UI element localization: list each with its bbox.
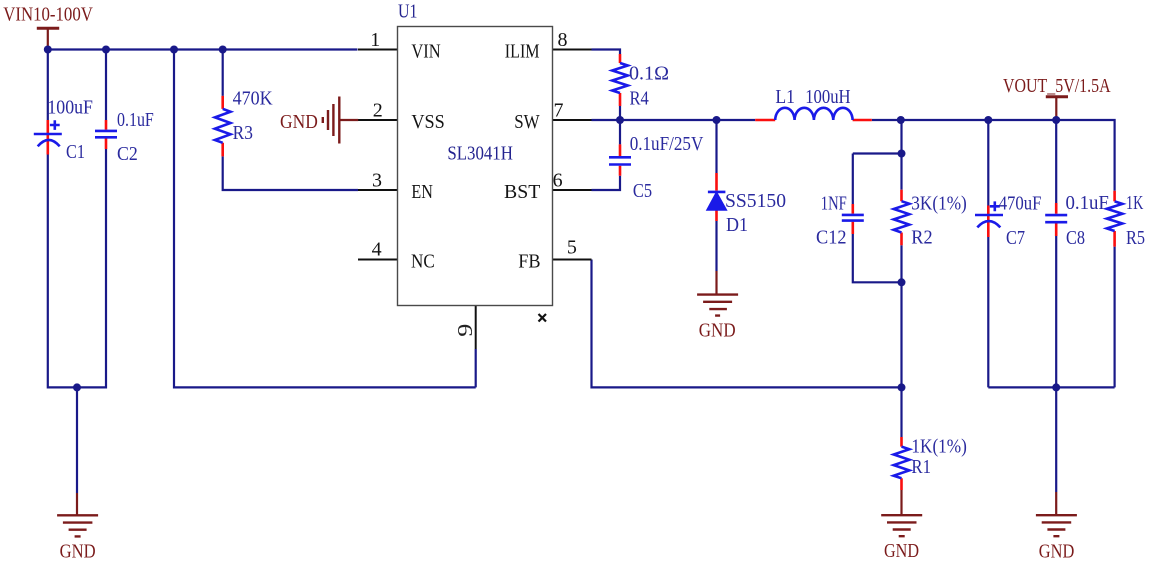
svg-text:0.1uF/25V: 0.1uF/25V <box>630 133 704 155</box>
svg-text:SL3041H: SL3041H <box>447 143 513 165</box>
svg-text:R2: R2 <box>911 227 932 249</box>
svg-text:EN: EN <box>411 181 433 203</box>
svg-text:L1: L1 <box>775 86 795 108</box>
svg-text:2: 2 <box>373 100 383 122</box>
svg-text:GND: GND <box>280 111 318 133</box>
svg-text:9: 9 <box>454 324 477 337</box>
svg-text:VIN10-100V: VIN10-100V <box>3 4 93 26</box>
svg-text:NC: NC <box>411 251 435 273</box>
svg-text:0.1uF: 0.1uF <box>117 109 154 131</box>
svg-text:SS5150: SS5150 <box>725 190 786 212</box>
svg-text:7: 7 <box>554 100 564 122</box>
svg-text:ILIM: ILIM <box>505 41 540 63</box>
svg-text:3K(1%): 3K(1%) <box>911 193 967 215</box>
svg-text:C8: C8 <box>1066 227 1085 249</box>
svg-text:100uH: 100uH <box>805 86 850 108</box>
svg-text:C7: C7 <box>1006 227 1025 249</box>
svg-text:470uF: 470uF <box>999 193 1042 215</box>
svg-text:VSS: VSS <box>411 111 444 133</box>
svg-text:VIN: VIN <box>411 41 440 63</box>
svg-text:1K: 1K <box>1126 192 1144 214</box>
svg-text:GND: GND <box>1039 540 1075 562</box>
svg-text:6: 6 <box>553 170 563 192</box>
svg-text:3: 3 <box>372 170 382 192</box>
svg-text:U1: U1 <box>398 1 417 23</box>
svg-text:8: 8 <box>558 29 568 51</box>
svg-text:BST: BST <box>504 181 540 203</box>
svg-text:0.1Ω: 0.1Ω <box>629 63 669 85</box>
svg-text:GND: GND <box>884 540 919 562</box>
svg-text:R1: R1 <box>911 456 931 478</box>
svg-text:FB: FB <box>518 251 540 273</box>
svg-text:5: 5 <box>567 237 577 259</box>
svg-text:C1: C1 <box>66 141 85 163</box>
svg-text:GND: GND <box>60 540 96 562</box>
svg-text:VOUT_5V/1.5A: VOUT_5V/1.5A <box>1003 75 1111 97</box>
svg-text:C2: C2 <box>117 143 138 165</box>
svg-text:100uF: 100uF <box>47 97 93 119</box>
svg-text:R4: R4 <box>630 87 649 109</box>
svg-text:R3: R3 <box>233 122 253 144</box>
svg-text:C5: C5 <box>633 180 652 202</box>
svg-text:D1: D1 <box>726 214 748 236</box>
svg-text:SW: SW <box>514 111 540 133</box>
svg-text:GND: GND <box>699 320 736 342</box>
svg-text:C12: C12 <box>816 227 847 249</box>
svg-text:1NF: 1NF <box>821 193 847 215</box>
svg-text:1K(1%): 1K(1%) <box>911 436 967 458</box>
svg-text:1: 1 <box>370 29 380 51</box>
svg-text:R5: R5 <box>1126 227 1145 249</box>
svg-text:470K: 470K <box>233 88 273 110</box>
svg-text:4: 4 <box>372 239 382 261</box>
svg-text:0.1uF: 0.1uF <box>1066 192 1109 214</box>
